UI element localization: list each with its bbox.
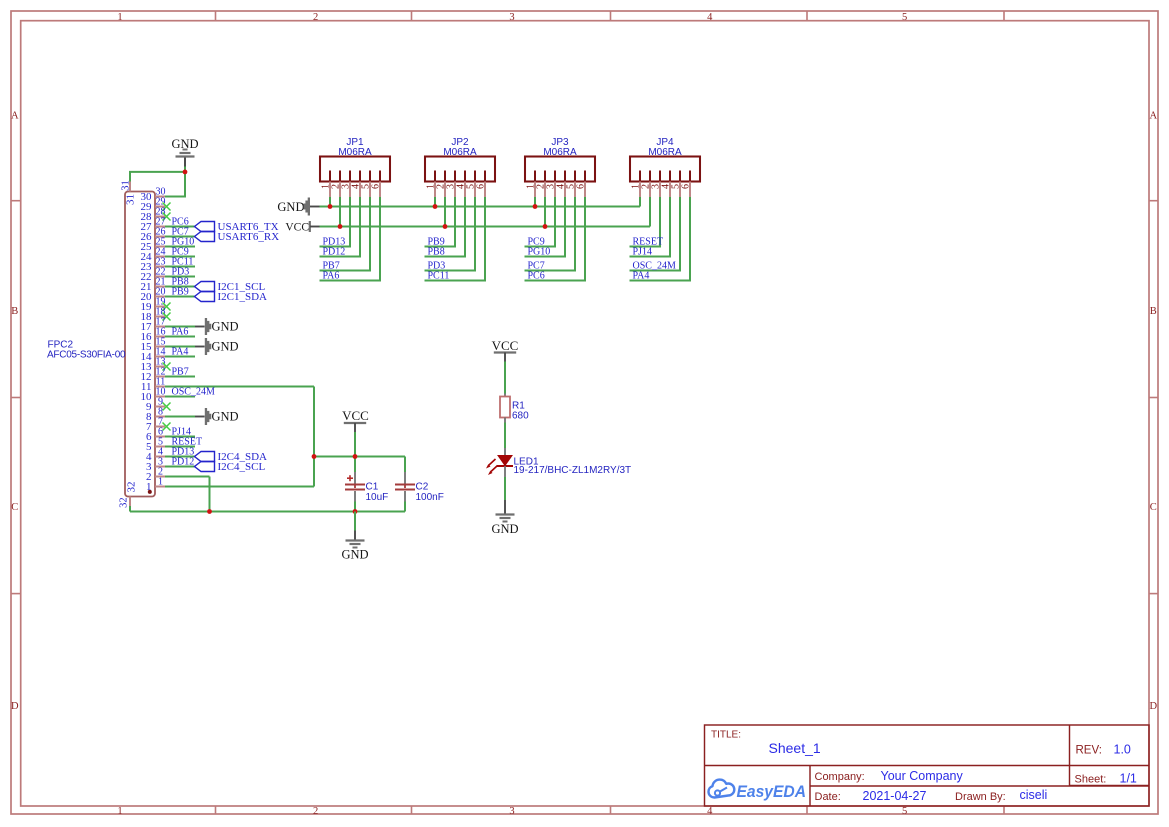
border column numbers top [117,12,907,23]
wire JP3 pin4 net PG10 [525,197,567,257]
netport I2C1_SCL [195,281,266,293]
wire JP3 pin6 net PC6 [525,197,587,281]
svg-text:GND: GND [491,522,518,536]
net label PJ14 (JP4) [633,247,652,258]
GND netflag at pin 17 [205,318,239,335]
wire FPC pin 6 net PJ14 [165,436,195,438]
capacitor C1 plates [345,485,365,490]
FPC2 pin 22 [141,266,166,283]
svg-text:C1: C1 [366,482,379,493]
wire FPC pin11 to VCC node [165,387,314,487]
net label PC11 (JP2) [428,271,450,282]
FPC2 pin 17 [141,316,166,333]
wire JP1 pin4 net PD12 [320,197,362,257]
JP4 pin 1 [631,171,642,198]
FPC2 pin 3 [146,456,165,473]
svg-text:6: 6 [476,184,487,189]
FPC2 pin 13 [141,356,166,373]
wire FPC pin 27 net PC6 [165,226,195,228]
svg-text:1/1: 1/1 [1120,772,1137,786]
Company: label [815,771,865,783]
JP4 pin 6 [681,171,692,198]
svg-text:3: 3 [509,806,514,817]
border row letters left [11,110,19,712]
netport I2C1_SDA [195,291,268,303]
svg-text:M06RA: M06RA [443,147,477,158]
svg-text:Drawn By:: Drawn By: [955,791,1006,803]
svg-text:OSC_24M: OSC_24M [172,387,215,398]
border row letters right [1150,110,1158,712]
FPC2 pin 25 [141,236,166,253]
JP2 value M06RA [443,147,477,158]
wire GND bottom rail [130,511,405,513]
wire JP4 pin5 net OSC_24M [630,197,682,271]
netport USART6_RX [195,231,280,243]
wire JP3 pin5 net PC7 [525,197,577,271]
FPC2 pin 7 no-connect X [163,423,171,431]
svg-text:Sheet:: Sheet: [1075,774,1107,786]
net label PD13 [172,447,195,458]
wire FPC pin 22 net PD3 [165,276,195,278]
sheet value 1/1 [1120,772,1137,786]
VCC netflag above R1 [492,338,519,362]
wire FPC pin2 to GND rail bottom [165,477,210,512]
svg-text:M06RA: M06RA [648,147,682,158]
svg-text:A: A [1150,110,1158,121]
company value Your Company [881,769,964,783]
svg-text:I2C4_SCL: I2C4_SCL [218,461,266,473]
JP2 pin 4 [456,171,467,198]
net label PB9 (JP2) [428,237,445,248]
svg-text:2: 2 [313,806,318,817]
svg-text:Company:: Company: [815,771,865,783]
wire VCC rail [320,226,651,228]
svg-text:B: B [1150,306,1157,317]
net label PD12 (JP1) [323,247,346,258]
FPC2 pin 1 [146,476,165,493]
wire FPC pin 16 net PA6 [165,336,195,338]
wire JP4 pin2 to VCC rail [649,197,651,227]
FPC2 pin 8 [146,406,165,423]
Sheet: label [1075,774,1107,786]
C1 value 10uF [366,492,389,503]
JP1 pin 4 [351,171,362,198]
drawn by value ciseli [1020,788,1048,802]
svg-text:PB8: PB8 [428,247,445,258]
EasyEDA logo [709,780,807,801]
connector JP2 body [425,157,495,182]
net label PA6 [172,327,189,338]
svg-text:6: 6 [681,184,692,189]
net label OSC_24M [172,387,215,398]
net label PC9 (JP3) [528,237,545,248]
FPC2 pin 14 [141,346,166,363]
wire LED1 to GND [504,477,506,500]
svg-text:PD12: PD12 [323,247,346,258]
FPC2 pin 9 [146,396,165,413]
net label PJ14 [172,427,191,438]
JP3 pin 5 [566,171,577,198]
net label RESET [172,437,203,448]
net label PC11 [172,257,194,268]
svg-text:31: 31 [121,180,132,191]
border column numbers bottom [117,806,907,817]
JP3 pin 4 [556,171,567,198]
svg-text:10uF: 10uF [366,492,389,503]
FPC2 value label AFC05-S30FIA-00 [47,350,126,361]
JP4 pin 4 [661,171,672,198]
Drawn By: label [955,791,1006,803]
connector JP4 body [630,157,700,182]
FPC2 pin 5 [146,436,165,453]
svg-text:1.0: 1.0 [1114,743,1131,757]
FPC2 pin 2 [146,466,165,483]
net label PC7 (JP3) [528,261,545,272]
svg-text:32: 32 [126,482,138,493]
net label PD3 (JP2) [428,261,446,272]
net label PC7 [172,227,189,238]
net label PC6 (JP3) [528,271,545,282]
net label PD13 (JP1) [323,237,346,248]
capacitor C1 polarity plus [347,475,353,481]
JP3 pin 6 [576,171,587,198]
svg-text:I2C1_SDA: I2C1_SDA [218,291,268,303]
wire JP1 pin5 net PB7 [320,197,372,271]
net label PA4 (JP4) [633,271,650,282]
svg-text:PA6: PA6 [323,271,340,282]
connector JP3 body [525,157,595,182]
LED1 emission arrows [486,459,498,475]
FPC2 pin 29 [141,196,166,213]
netport USART6_TX [195,221,279,233]
FPC2 pin 26 [141,226,166,243]
svg-text:32: 32 [118,497,129,508]
wire FPC pin 14 net PA4 [165,356,195,358]
svg-text:A: A [11,110,19,121]
GND rail netflag [277,198,319,216]
JP1 pin 5 [361,171,372,198]
net label PB8 (JP2) [428,247,445,258]
JP3 pin 1 [526,171,537,198]
junction dots VCC rail [338,224,548,229]
JP1 pin 3 [341,171,352,198]
FPC2 pin 28 no-connect X [163,213,171,221]
svg-text:4: 4 [707,806,713,817]
svg-text:Date:: Date: [815,791,841,803]
JP2 pin 3 [446,171,457,198]
FPC2 pin 28 [141,206,166,223]
wire FPC pin 5 net RESET [165,446,195,448]
svg-text:ciseli: ciseli [1020,788,1048,802]
JP1 reference designator [346,137,364,148]
ground symbol below C1 [341,531,368,562]
svg-text:Your Company: Your Company [881,769,964,783]
JP2 pin 5 [466,171,477,198]
FPC2 pin 4 [146,446,165,463]
svg-text:PA4: PA4 [633,271,650,282]
netport I2C4_SDA [195,451,268,463]
wire FPC pin 25 net PG10 [165,246,195,248]
svg-text:5: 5 [902,806,907,817]
svg-text:PJ14: PJ14 [633,247,652,258]
wire FPC pin 20 net PB9 [165,296,195,298]
wire JP1 pin6 net PA6 [320,197,382,281]
svg-text:680: 680 [512,411,529,422]
wire JP2 pin3 net PB9 [425,197,457,247]
wire JP4 pin4 net PJ14 [630,197,672,257]
net label PG10 (JP3) [528,247,551,258]
svg-text:C: C [1150,502,1157,513]
svg-text:GND: GND [212,410,239,424]
JP4 reference designator [656,137,674,148]
JP1 pin 1 [321,171,332,198]
FPC2 pin 30 [141,186,166,203]
GND netflag at pin 15 [205,338,239,355]
svg-text:M06RA: M06RA [543,147,577,158]
FPC2 pin 18 [141,306,166,323]
wire JP2 pin5 net PD3 [425,197,477,271]
svg-text:AFC05-S30FIA-00: AFC05-S30FIA-00 [47,350,126,361]
wire pin31 to top GND [129,172,185,182]
border row ticks left [11,201,21,594]
FPC2 pin 7 [146,416,165,433]
FPC2 pin 6 [146,426,165,443]
FPC2 pin 27 [141,216,166,233]
svg-text:2021-04-27: 2021-04-27 [863,789,927,803]
svg-text:GND: GND [277,200,304,214]
JP2 reference designator [451,137,469,148]
wire FPC pin 12 net PB7 [165,376,195,378]
wire JP3 pin1 to GND rail [534,197,536,207]
LED1 reference designator [514,457,539,468]
wire VCC to R1 [504,362,506,394]
wire JP3 pin3 net PC9 [525,197,557,247]
svg-text:VCC: VCC [342,408,369,423]
FPC2 pin 23 [141,256,166,273]
net label PB7 (JP1) [323,261,340,272]
ground symbol top GND [171,137,198,167]
svg-text:31: 31 [125,194,137,205]
svg-text:C2: C2 [416,482,429,493]
capacitor C2 plates [395,485,415,490]
wire FPC pin 3 net PD12 [165,466,195,468]
JP1 value M06RA [338,147,372,158]
net label RESET (JP4) [633,237,664,248]
svg-text:B: B [11,306,18,317]
border column ticks bottom [216,806,1005,814]
svg-text:PB7: PB7 [172,367,189,378]
net label OSC_24M (JP4) [633,261,676,272]
wire JP2 pin1 to GND rail [434,197,436,207]
svg-text:PC6: PC6 [528,271,545,282]
wire FPC pin 23 net PC11 [165,266,195,268]
LED1 diode [497,448,513,477]
wire FPC pin 15 to GND flag [165,346,205,348]
capacitor C1 leads [354,457,356,512]
svg-text:4: 4 [707,12,713,23]
FPC2 pin 20 [141,286,166,303]
svg-text:PB9: PB9 [172,287,189,298]
FPC2 pin 11 [141,376,165,393]
svg-text:PA6: PA6 [172,327,189,338]
svg-text:PG10: PG10 [528,247,551,258]
net label PC9 [172,247,189,258]
svg-text:TITLE:: TITLE: [711,730,741,741]
wire JP4 pin3 net RESET [630,197,662,247]
wire FPC pin 4 net PD13 [165,456,195,458]
svg-text:D: D [11,701,19,712]
svg-text:5: 5 [902,12,907,23]
FPC2 pin 24 [141,246,166,263]
JP2 pin 1 [426,171,437,198]
JP3 pin 3 [546,171,557,198]
JP1 pin 2 [331,171,342,198]
FPC2 pin 32 [118,482,137,508]
wire VCC node to capacitors [314,456,405,458]
ground symbol below LED1 [491,500,518,536]
JP3 pin 2 [536,171,547,198]
border row ticks right [1149,201,1158,594]
svg-text:VCC: VCC [285,222,309,234]
svg-text:USART6_RX: USART6_RX [218,231,280,243]
REV: label [1076,745,1102,757]
net label PD3 [172,267,190,278]
net label PB9 [172,287,189,298]
svg-text:VCC: VCC [492,338,519,353]
FPC2 pin 16 [141,326,166,343]
wire VCC flag to node [354,432,356,457]
wire JP4 pin6 net PA4 [630,197,692,281]
junction dots GND rail [328,204,538,209]
net label PB8 [172,277,189,288]
title Sheet_1 [769,740,821,756]
svg-text:PA4: PA4 [172,347,189,358]
VCC netflag above C1 [342,408,369,432]
border column ticks top [216,11,1005,21]
wire GND rail [320,206,641,208]
svg-text:Sheet_1: Sheet_1 [769,740,821,756]
svg-text:6: 6 [371,184,382,189]
wire JP1 pin3 net PD13 [320,197,352,247]
netport I2C4_SCL [195,461,266,473]
junction dots VCC/GND nodes [207,454,357,514]
GND netflag at pin 8 [205,408,239,425]
FPC2 pin 13 no-connect X [163,363,171,371]
net label PA6 (JP1) [323,271,340,282]
JP2 pin 6 [476,171,487,198]
JP4 pin 3 [651,171,662,198]
FPC2 pin 19 [141,296,166,313]
C2 value 100nF [416,492,444,503]
date value 2021-04-27 [863,789,927,803]
FPC2 pin 18 no-connect X [163,313,171,321]
FPC2 pin 15 [141,336,166,353]
svg-text:1: 1 [117,806,122,817]
wire JP4 pin1 to GND rail [639,197,641,207]
JP4 value M06RA [648,147,682,158]
svg-text:1: 1 [158,476,163,487]
FPC2 pin1 marker dot [148,490,152,494]
JP1 pin 6 [371,171,382,198]
net label PA4 [172,347,189,358]
svg-text:2: 2 [313,12,318,23]
svg-text:PD12: PD12 [172,457,195,468]
C2 reference designator [416,482,429,493]
LED1 value 19-217/BHC-ZL1M2RY/3T [514,465,632,476]
wire FPC pin 17 to GND flag [165,326,205,328]
svg-text:M06RA: M06RA [338,147,372,158]
svg-text:PC11: PC11 [428,271,450,282]
net label PB7 [172,367,189,378]
svg-text:GND: GND [341,548,368,562]
C1 reference designator [366,482,379,493]
svg-text:GND: GND [212,320,239,334]
junction top GND [183,170,188,175]
wire FPC pin1 to VCC node [165,486,314,488]
title block TITLE: label [711,730,741,741]
JP3 value M06RA [543,147,577,158]
FPC2 reference designator label [48,340,74,351]
wire JP1 pin1 to GND rail [329,197,331,207]
FPC2 pin 12 [141,366,166,383]
FPC2 pin 10 [141,386,166,403]
wire pin30 to top GND [165,167,186,197]
wire FPC pin 10 net OSC_24M [165,396,195,398]
FPC2 pin 31 [121,180,137,205]
title block frame [705,725,1150,806]
Date: label [815,791,841,803]
JP3 reference designator [551,137,569,148]
FPC2 pin 9 no-connect X [163,403,171,411]
JP4 pin 2 [641,171,652,198]
FPC2 pin 21 [141,276,166,293]
wire FPC pin 24 net PC9 [165,256,195,258]
svg-text:19-217/BHC-ZL1M2RY/3T: 19-217/BHC-ZL1M2RY/3T [514,465,632,476]
FPC2 pin 19 no-connect X [163,303,171,311]
R1 value 680 [512,411,529,422]
net label PD12 [172,457,195,468]
svg-text:REV:: REV: [1076,745,1102,757]
R1 reference designator [512,401,525,412]
capacitor C2 leads [404,457,406,512]
net label PG10 [172,237,195,248]
wire JP2 pin2 to VCC rail [444,197,446,227]
wire JP3 pin2 to VCC rail [544,197,546,227]
wire FPC pin 8 to GND flag [165,416,205,418]
svg-text:C: C [11,502,18,513]
wire JP1 pin2 to VCC rail [339,197,341,227]
wire FPC pin 21 net PB8 [165,286,195,288]
svg-text:EasyEDA: EasyEDA [737,783,807,801]
wire JP2 pin6 net PC11 [425,197,487,281]
svg-text:D: D [1150,701,1158,712]
resistor R1 [500,394,510,423]
svg-text:3: 3 [509,12,514,23]
connector JP1 body [320,157,390,182]
svg-text:1: 1 [117,12,122,23]
VCC rail netflag [285,221,319,234]
svg-text:GND: GND [171,137,198,151]
connector FPC2 body [125,192,155,497]
wire R1 to LED1 [504,423,506,449]
wire JP2 pin4 net PB8 [425,197,467,257]
svg-text:GND: GND [212,340,239,354]
wire C1 GND stem [354,512,356,531]
wire FPC pin 26 net PC7 [165,236,195,238]
svg-text:6: 6 [576,184,587,189]
net label PC6 [172,217,189,228]
JP4 pin 5 [671,171,682,198]
